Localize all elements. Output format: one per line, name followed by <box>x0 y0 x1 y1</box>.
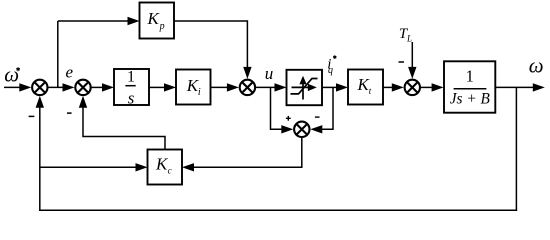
limiter vertical axis <box>299 76 306 100</box>
svg-text:Js + B: Js + B <box>450 90 491 107</box>
svg-text:i: i <box>198 87 201 98</box>
wire 1/s to Ki <box>149 83 176 91</box>
block Kp <box>140 3 175 39</box>
svg-text:1: 1 <box>127 68 135 85</box>
wire bottom feedback <box>39 209 517 211</box>
label u <box>265 64 274 83</box>
summing junction S3 <box>240 80 255 95</box>
minus sign TL <box>399 61 405 63</box>
wire iq branch to S5 <box>310 87 333 133</box>
block plant 1/(Js+B) <box>444 61 495 112</box>
block Kt <box>348 70 383 105</box>
svg-text:K: K <box>147 9 161 28</box>
wire S3 to limiter <box>256 83 287 91</box>
wire S2 to integrator <box>92 83 115 91</box>
label TL <box>399 26 412 44</box>
summing junction S4 <box>405 80 420 95</box>
block limiter <box>287 70 323 105</box>
wire feedback to Kc <box>40 163 148 171</box>
wire Kc to S2 <box>79 96 165 150</box>
svg-text:L: L <box>406 34 412 44</box>
wire Kt to S4 <box>383 83 404 91</box>
label omega output <box>529 53 544 77</box>
summing junction S2 <box>75 80 90 95</box>
plus sign S5 <box>286 116 291 121</box>
node branch to Kp <box>57 21 59 87</box>
svg-text:u: u <box>265 64 274 83</box>
wire TL to S4 <box>408 42 416 79</box>
limiter horizontal axis <box>292 84 317 91</box>
minus sign S2 <box>67 112 72 114</box>
wire Ki to S3 <box>211 83 239 91</box>
svg-text:c: c <box>168 166 172 176</box>
wire S5 to Kc <box>182 138 302 172</box>
block Ki <box>176 70 211 105</box>
svg-text:ω: ω <box>4 62 19 86</box>
svg-text:ω: ω <box>529 53 544 77</box>
label e <box>66 63 74 82</box>
svg-text:p: p <box>159 21 165 32</box>
wire branch to Kp <box>58 17 140 25</box>
svg-text:q: q <box>328 65 333 76</box>
wire S1 to S2 <box>48 83 74 91</box>
summing junction S1 <box>32 80 47 95</box>
block Kc <box>148 150 183 185</box>
label iq* <box>327 55 336 76</box>
block 1/s <box>114 68 149 107</box>
wire Kp to S3 <box>174 21 252 79</box>
svg-text:e: e <box>66 63 74 82</box>
wire input <box>4 83 31 91</box>
svg-text:s: s <box>128 88 135 107</box>
wire plant output <box>495 83 545 91</box>
node output branch <box>515 87 517 210</box>
input label w* <box>4 62 20 86</box>
summing junction S5 <box>294 122 309 137</box>
svg-text:1: 1 <box>466 67 474 86</box>
minus sign S1 <box>29 115 35 117</box>
minus sign S5 <box>315 116 320 118</box>
wire S4 to plant <box>421 83 444 91</box>
limiter saturation curve <box>291 79 318 94</box>
wire u branch to S5 <box>271 87 294 133</box>
wire feedback up to S1 <box>36 96 44 210</box>
wire limiter to Kt <box>322 83 348 91</box>
